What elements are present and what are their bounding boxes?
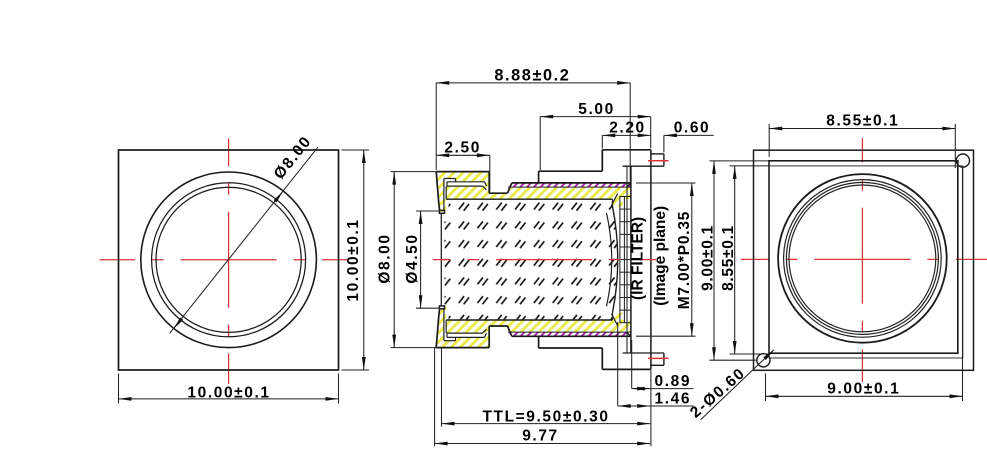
svg-text:10.00±0.1: 10.00±0.1 — [345, 218, 362, 301]
svg-text:5.00: 5.00 — [578, 101, 615, 118]
svg-text:9.00±0.1: 9.00±0.1 — [827, 380, 900, 397]
svg-text:10.00±0.1: 10.00±0.1 — [187, 385, 270, 402]
svg-text:0.60: 0.60 — [674, 120, 711, 137]
svg-text:0.89: 0.89 — [655, 373, 692, 390]
svg-text:(Image plane): (Image plane) — [652, 206, 669, 306]
svg-text:9.77: 9.77 — [522, 428, 559, 445]
svg-text:8.55±0.1: 8.55±0.1 — [826, 113, 899, 130]
svg-text:2.50: 2.50 — [444, 139, 481, 156]
svg-text:2.20: 2.20 — [609, 120, 646, 137]
svg-text:Ø8.00: Ø8.00 — [377, 233, 394, 283]
svg-text:8.55±0.1: 8.55±0.1 — [720, 225, 737, 291]
svg-text:8.88±0.2: 8.88±0.2 — [494, 67, 570, 85]
svg-text:TTL=9.50±0.30: TTL=9.50±0.30 — [482, 409, 609, 426]
svg-text:1.46: 1.46 — [655, 390, 692, 407]
svg-text:Ø4.50: Ø4.50 — [404, 233, 421, 283]
svg-text:(IR FILTER): (IR FILTER) — [630, 217, 647, 300]
svg-text:M7.00*P0.35: M7.00*P0.35 — [676, 211, 693, 309]
svg-text:9.00±0.1: 9.00±0.1 — [699, 225, 716, 291]
